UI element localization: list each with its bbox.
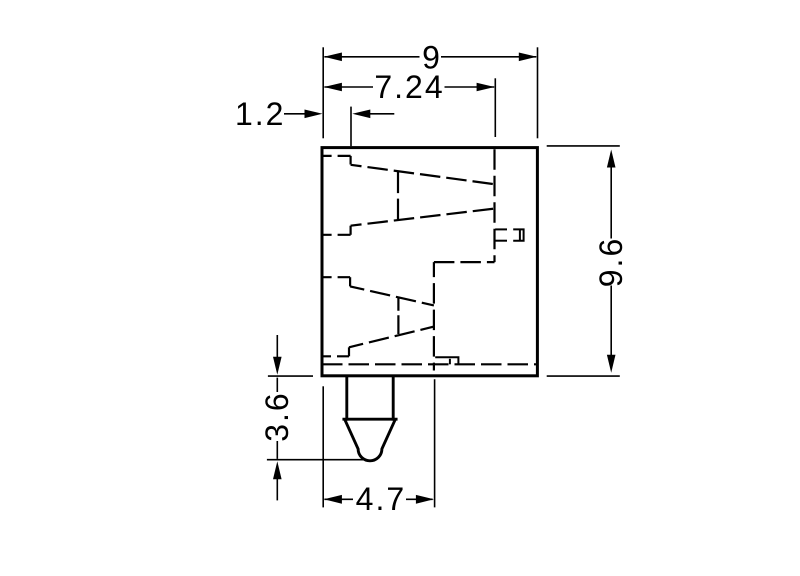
- extension line 7.24 (x=495.3): [494, 78, 496, 137]
- hidden diagonal D1: [351, 165, 495, 184]
- dimension line 3.6 lower tail: [276, 479, 278, 500]
- hidden step lower-left vertical: [349, 277, 351, 286]
- extension line 4.7 left: [322, 386, 324, 507]
- arrowhead 1.2 pointing right: [305, 110, 323, 119]
- latch detail upper: left bracket bottom line: [495, 240, 507, 242]
- hidden vertical V2 bore wall: [493, 149, 495, 262]
- dimension line 9.6: [610, 153, 612, 368]
- hidden step bottom-left vertical: [348, 347, 350, 356]
- pin collar bar: [344, 418, 396, 421]
- dimension line 1.2 right tail: [368, 113, 394, 115]
- hidden step bottom-left horizontal: [322, 355, 349, 357]
- latch detail lower: inner wall: [449, 359, 451, 365]
- dimension line 3.6 upper tail: [276, 335, 278, 357]
- hidden step top-left horizontal: [322, 155, 351, 157]
- hidden step mid-left vertical: [350, 226, 352, 235]
- arrowhead 9 right: [519, 53, 537, 62]
- extension line 4.7 right: [434, 379, 436, 507]
- pin tip outline: [345, 421, 394, 461]
- arrowhead 9 left: [324, 53, 342, 62]
- body outline: [322, 148, 537, 376]
- svg-text:4.7: 4.7: [356, 481, 406, 517]
- arrowhead 9.6 top: [607, 150, 616, 168]
- latch detail lower: bracket: [435, 357, 458, 364]
- pin left side wall: [345, 377, 348, 420]
- arrowhead 7.24 right: [477, 83, 495, 92]
- arrowhead 4.7 left: [324, 495, 342, 504]
- dimension line 9: [324, 56, 536, 58]
- dimension line 3.6 mid segments: [276, 378, 278, 459]
- extension line 1.2 (x=351.6): [350, 107, 352, 147]
- dimension line 4.7: [324, 498, 432, 500]
- hidden diagonal D2: [351, 209, 495, 226]
- hidden vertical V4: [397, 297, 399, 334]
- dimension line 7.24: [324, 86, 494, 88]
- arrowhead 4.7 right: [416, 495, 434, 504]
- svg-text:3.6: 3.6: [259, 391, 295, 441]
- arrowhead 3.6 pointing up: [273, 461, 282, 479]
- extension line left (x=323): [322, 47, 324, 138]
- extension line right (x=537.5): [537, 47, 539, 138]
- latch detail upper: left bracket top line: [495, 228, 507, 230]
- hidden diagonal D3: [350, 286, 434, 305]
- arrowhead 1.2 pointing left: [352, 110, 370, 119]
- hidden step top-left vertical: [350, 156, 352, 165]
- extension line 3.6 tip level: [267, 459, 364, 461]
- hidden bottom plane H2: [322, 363, 537, 365]
- extension tick 3.6 body level: [268, 375, 313, 377]
- arrowhead 9.6 bottom: [607, 355, 616, 373]
- hidden vertical V3 lower bore wall: [433, 262, 435, 370]
- latch detail upper: inner wall: [519, 230, 521, 240]
- dimension line 1.2 left tail: [284, 113, 306, 115]
- hidden step lower-left horizontal: [322, 276, 350, 278]
- svg-text:7.24: 7.24: [374, 69, 444, 105]
- arrowhead 3.6 pointing down: [273, 357, 282, 375]
- hidden horizontal H1 bore shoulder: [434, 261, 495, 263]
- hidden vertical V1: [397, 171, 399, 220]
- latch detail upper: right cup: [513, 229, 523, 240]
- svg-text:1.2: 1.2: [235, 96, 285, 132]
- hidden step mid-left horizontal: [322, 234, 351, 236]
- svg-text:9.6: 9.6: [593, 237, 629, 287]
- extension line 9.6 bottom: [547, 375, 620, 377]
- extension line 9.6 top: [547, 145, 620, 147]
- arrowhead 7.24 left: [324, 83, 342, 92]
- pin right side wall: [392, 377, 395, 420]
- hidden diagonal D4: [349, 327, 434, 348]
